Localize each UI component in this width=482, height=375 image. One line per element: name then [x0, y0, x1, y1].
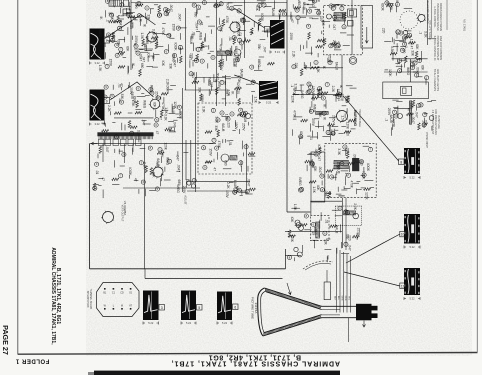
- svg-text:IMEG: IMEG: [198, 32, 202, 41]
- svg-text:220: 220: [359, 160, 363, 166]
- svg-text:33K: 33K: [169, 63, 173, 70]
- svg-text:.047: .047: [415, 111, 419, 117]
- svg-text:.0047: .0047: [139, 53, 143, 61]
- svg-text:33K: 33K: [255, 5, 259, 12]
- svg-text:9: 9: [106, 99, 108, 103]
- svg-text:470K: 470K: [350, 180, 354, 188]
- svg-text:33K: 33K: [214, 125, 218, 132]
- svg-text:1.5K: 1.5K: [293, 204, 297, 211]
- svg-text:3.3K: 3.3K: [316, 66, 320, 73]
- svg-text:BLU: BLU: [337, 296, 339, 301]
- svg-text:5 22: 5 22: [148, 321, 154, 325]
- svg-text:.0047: .0047: [225, 88, 229, 96]
- svg-text:IOK: IOK: [161, 60, 165, 66]
- svg-text:ADJUST: ADJUST: [183, 195, 186, 205]
- svg-text:IMEG: IMEG: [298, 177, 302, 186]
- svg-text:IOK: IOK: [313, 166, 317, 172]
- svg-text:IMEG: IMEG: [297, 0, 301, 7]
- svg-text:.1: .1: [105, 19, 109, 22]
- svg-text:S-TRIOL CONTROL IN: S-TRIOL CONTROL IN: [433, 36, 436, 61]
- svg-text:10: 10: [401, 233, 405, 237]
- svg-text:1.5K: 1.5K: [140, 33, 144, 40]
- svg-text:IOOK: IOOK: [260, 13, 264, 22]
- svg-text:4.5 MC TRAP ADJUST: 4.5 MC TRAP ADJUST: [431, 110, 434, 135]
- svg-text:220: 220: [402, 48, 406, 54]
- svg-text:3 22: 3 22: [94, 122, 100, 126]
- svg-text:.01: .01: [95, 170, 99, 175]
- svg-text:.047: .047: [105, 146, 109, 152]
- svg-text:.0047: .0047: [411, 116, 415, 124]
- svg-text:.01: .01: [325, 219, 329, 224]
- svg-text:47: 47: [158, 116, 162, 120]
- svg-text:150V: 150V: [208, 148, 212, 156]
- svg-text:B, 17J1, 17K1, 4R2, 8G1: B, 17J1, 17K1, 4R2, 8G1: [208, 353, 301, 360]
- svg-text:.047: .047: [173, 121, 177, 127]
- svg-text:220: 220: [348, 235, 352, 241]
- svg-text:120K: 120K: [346, 122, 350, 130]
- svg-text:IMEG: IMEG: [172, 54, 176, 63]
- svg-text:6AU8: 6AU8: [189, 36, 193, 44]
- svg-text:255V: 255V: [182, 186, 186, 194]
- svg-text:IOOK: IOOK: [362, 171, 366, 180]
- svg-text:120K: 120K: [388, 69, 392, 77]
- svg-text:47: 47: [410, 46, 414, 50]
- svg-text:IMEG: IMEG: [257, 59, 261, 68]
- svg-text:470K: 470K: [110, 12, 114, 20]
- svg-text:6AU8: 6AU8: [237, 28, 241, 36]
- svg-text:33K: 33K: [149, 87, 153, 94]
- svg-text:47: 47: [344, 173, 348, 177]
- svg-text:.01: .01: [191, 73, 195, 78]
- svg-text:47: 47: [155, 131, 159, 135]
- svg-text:.047: .047: [263, 46, 267, 52]
- svg-text:IMEG: IMEG: [311, 0, 315, 7]
- svg-text:220: 220: [403, 38, 407, 44]
- svg-text:.01: .01: [309, 135, 313, 140]
- svg-text:2.2K: 2.2K: [397, 58, 401, 65]
- svg-text:VERT OUTPUT: VERT OUTPUT: [120, 205, 123, 222]
- svg-text:IOOK: IOOK: [380, 3, 384, 12]
- svg-text:33K: 33K: [116, 40, 120, 47]
- svg-text:3.3K: 3.3K: [152, 29, 156, 36]
- svg-text:3.3K: 3.3K: [163, 114, 167, 121]
- svg-text:IOK: IOK: [226, 3, 230, 9]
- svg-text:470K: 470K: [161, 27, 165, 35]
- svg-text:255V: 255V: [311, 118, 315, 126]
- svg-text:470K: 470K: [219, 24, 223, 32]
- svg-text:.0047: .0047: [324, 190, 328, 198]
- svg-text:5 22: 5 22: [409, 297, 415, 301]
- svg-text:U-TROL CONTROL: U-TROL CONTROL: [433, 6, 436, 28]
- svg-text:.01: .01: [228, 36, 232, 41]
- svg-text:IOK: IOK: [415, 44, 419, 50]
- svg-text:33K: 33K: [120, 93, 124, 100]
- svg-text:6AU8: 6AU8: [233, 180, 237, 188]
- svg-text:IMEG: IMEG: [176, 185, 180, 194]
- svg-text:150V: 150V: [234, 122, 238, 130]
- svg-text:IMEG: IMEG: [312, 104, 316, 113]
- svg-text:FOR MINIMUM SOUND: FOR MINIMUM SOUND: [434, 109, 437, 135]
- svg-text:6AU8: 6AU8: [171, 106, 175, 114]
- svg-text:47: 47: [212, 167, 216, 171]
- svg-text:470K: 470K: [161, 102, 165, 110]
- svg-text:12: 12: [401, 284, 405, 288]
- svg-text:255V: 255V: [421, 120, 425, 128]
- svg-text:255V: 255V: [235, 21, 239, 29]
- svg-text:M: M: [121, 305, 123, 308]
- svg-text:TO ALL FILAMENTS: TO ALL FILAMENTS: [433, 69, 436, 91]
- svg-text:.0047: .0047: [195, 22, 199, 30]
- svg-text:47: 47: [133, 178, 137, 182]
- svg-text:33K: 33K: [324, 239, 328, 246]
- svg-text:IOK: IOK: [125, 46, 129, 52]
- svg-text:8: 8: [400, 160, 402, 164]
- svg-text:IMEG: IMEG: [300, 90, 304, 99]
- svg-text:220: 220: [126, 12, 130, 18]
- svg-text:1.5K: 1.5K: [98, 65, 102, 72]
- svg-text:3.3K: 3.3K: [215, 116, 219, 123]
- svg-text:PHONO INPUT: PHONO INPUT: [425, 132, 427, 149]
- svg-text:33K: 33K: [146, 14, 150, 21]
- svg-text:1.5K: 1.5K: [341, 115, 345, 122]
- svg-text:33K: 33K: [257, 44, 261, 51]
- svg-text:.01: .01: [153, 37, 157, 42]
- svg-text:6AU8: 6AU8: [302, 2, 306, 10]
- svg-text:150V: 150V: [108, 59, 112, 67]
- svg-text:470K: 470K: [292, 110, 296, 118]
- svg-text:3.3K: 3.3K: [201, 106, 205, 113]
- svg-text:.0047: .0047: [112, 0, 116, 8]
- svg-text:.0047: .0047: [247, 178, 251, 186]
- svg-text:IOOK: IOOK: [391, 119, 395, 128]
- svg-text:.0047: .0047: [166, 85, 170, 93]
- svg-text:.0047: .0047: [415, 66, 419, 74]
- svg-text:IMEG: IMEG: [208, 77, 212, 86]
- svg-text:.047: .047: [155, 161, 159, 167]
- svg-text:MINIATURIZED CHASSIS: MINIATURIZED CHASSIS: [439, 3, 442, 31]
- svg-text:680: 680: [140, 63, 144, 69]
- svg-text:.1: .1: [384, 118, 388, 121]
- svg-text:470K: 470K: [292, 88, 296, 96]
- svg-text:255V: 255V: [130, 92, 134, 100]
- svg-text:255V: 255V: [356, 228, 360, 236]
- svg-text:MAX CCW ROTATION: MAX CCW ROTATION: [439, 36, 442, 60]
- svg-text:IOOK: IOOK: [299, 131, 303, 140]
- svg-text:220: 220: [189, 53, 193, 59]
- svg-text:33K: 33K: [318, 112, 322, 119]
- svg-text:470K: 470K: [225, 16, 229, 24]
- svg-text:.0047: .0047: [353, 154, 357, 162]
- svg-text:.0047: .0047: [318, 166, 322, 174]
- svg-text:.0047: .0047: [178, 13, 182, 21]
- svg-text:BLK: BLK: [333, 296, 335, 301]
- svg-text:47: 47: [311, 232, 315, 236]
- svg-text:5 13: 5 13: [275, 50, 281, 54]
- svg-text:255V: 255V: [328, 55, 332, 63]
- svg-text:IOOK: IOOK: [128, 167, 132, 176]
- svg-text:IMEG: IMEG: [142, 100, 146, 109]
- svg-text:B, 17J1, 17K1, 4R2, 8G1: B, 17J1, 17K1, 4R2, 8G1: [55, 268, 61, 325]
- svg-text:6AU8: 6AU8: [234, 46, 238, 54]
- svg-text:21FP4A: 21FP4A: [254, 303, 258, 314]
- svg-text:120K: 120K: [164, 142, 168, 150]
- svg-text:.01: .01: [260, 0, 264, 5]
- svg-text:2.2K: 2.2K: [331, 86, 335, 93]
- svg-text:TERMINAL BOARD: TERMINAL BOARD: [89, 289, 92, 310]
- svg-text:120K: 120K: [291, 95, 295, 103]
- svg-text:220: 220: [381, 28, 385, 34]
- svg-text:47: 47: [120, 83, 124, 87]
- svg-text:6AU8: 6AU8: [129, 21, 133, 29]
- svg-text:IOOK: IOOK: [174, 43, 178, 52]
- svg-text:3: 3: [161, 306, 163, 310]
- svg-text:.0047: .0047: [314, 149, 318, 157]
- svg-text:.047: .047: [235, 56, 239, 62]
- svg-text:220: 220: [294, 63, 298, 69]
- svg-text:33K: 33K: [197, 87, 201, 94]
- svg-text:PAGE 27: PAGE 27: [1, 325, 10, 355]
- svg-text:47: 47: [303, 65, 307, 69]
- svg-text:6AU8: 6AU8: [334, 62, 338, 70]
- svg-text:680: 680: [321, 20, 325, 26]
- svg-text:470K: 470K: [218, 44, 222, 52]
- svg-text:IOK: IOK: [290, 217, 294, 223]
- svg-text:HIGH VOLTAGE: HIGH VOLTAGE: [358, 109, 361, 127]
- svg-text:680: 680: [177, 180, 181, 186]
- svg-text:47: 47: [101, 177, 105, 181]
- svg-text:.047: .047: [142, 119, 146, 125]
- svg-text:3.3K: 3.3K: [424, 31, 428, 38]
- svg-text:6AU8: 6AU8: [145, 36, 149, 44]
- svg-text:3.3K: 3.3K: [337, 148, 341, 155]
- svg-text:IMEG: IMEG: [98, 29, 102, 38]
- svg-text:NO. 17A81: NO. 17A81: [462, 19, 465, 31]
- svg-text:6AU8: 6AU8: [271, 8, 275, 16]
- svg-text:255V: 255V: [154, 91, 158, 99]
- svg-text:470K: 470K: [217, 141, 221, 149]
- svg-text:2.2K: 2.2K: [353, 203, 357, 210]
- svg-text:680: 680: [223, 160, 227, 166]
- svg-text:255V: 255V: [134, 35, 138, 43]
- svg-text:.1: .1: [404, 45, 408, 48]
- svg-text:.1: .1: [418, 31, 422, 34]
- svg-text:IMEG: IMEG: [406, 67, 410, 76]
- svg-text:WARNING: WARNING: [353, 110, 357, 127]
- svg-text:255V: 255V: [331, 115, 335, 123]
- svg-text:PICTURE TUBE: PICTURE TUBE: [250, 297, 254, 319]
- svg-text:IOK: IOK: [153, 102, 157, 108]
- svg-text:.047: .047: [175, 155, 179, 161]
- svg-text:1.5K: 1.5K: [166, 10, 170, 17]
- svg-text:255V: 255V: [289, 33, 293, 41]
- svg-text:255V: 255V: [242, 123, 246, 131]
- svg-text:680: 680: [193, 12, 197, 18]
- svg-text:5: 5: [198, 306, 200, 310]
- svg-text:.0047: .0047: [177, 164, 181, 172]
- svg-text:IOOK: IOOK: [179, 111, 183, 120]
- svg-text:5 22: 5 22: [409, 245, 415, 249]
- svg-text:33K: 33K: [411, 50, 415, 57]
- svg-text:GRN: GRN: [344, 296, 346, 301]
- svg-text:.01: .01: [199, 21, 203, 26]
- svg-text:IOOK: IOOK: [366, 163, 370, 172]
- svg-text:.047: .047: [332, 24, 336, 30]
- svg-text:2.2K: 2.2K: [143, 162, 147, 169]
- svg-text:.1: .1: [290, 84, 294, 87]
- svg-text:5 25: 5 25: [266, 101, 272, 105]
- svg-text:.01: .01: [252, 79, 256, 84]
- svg-text:5 22: 5 22: [222, 321, 228, 325]
- svg-text:INTERCARRIER SOUND: INTERCARRIER SOUND: [436, 3, 439, 31]
- svg-text:1.5K: 1.5K: [253, 96, 257, 103]
- svg-text:1.5K: 1.5K: [312, 186, 316, 193]
- svg-text:6AU8: 6AU8: [240, 69, 244, 77]
- svg-text:POSITION SHOWN AT: POSITION SHOWN AT: [436, 36, 439, 61]
- svg-text:150V: 150V: [225, 190, 229, 198]
- svg-text:6AU8: 6AU8: [243, 114, 247, 122]
- svg-text:47: 47: [407, 108, 411, 112]
- svg-text:.047: .047: [348, 244, 352, 250]
- svg-text:5 22: 5 22: [186, 321, 192, 325]
- svg-text:2.2K: 2.2K: [226, 182, 230, 189]
- svg-text:CD: CD: [120, 292, 124, 295]
- svg-text:IOK: IOK: [421, 65, 425, 71]
- svg-text:IMEG: IMEG: [166, 157, 170, 166]
- svg-text:120K: 120K: [365, 192, 369, 200]
- svg-text:AND PILOT LIGHTS: AND PILOT LIGHTS: [436, 69, 439, 91]
- svg-text:5 22: 5 22: [409, 176, 415, 180]
- svg-text:6AU8: 6AU8: [221, 123, 225, 131]
- svg-text:150V: 150V: [171, 24, 175, 32]
- svg-text:2.2K: 2.2K: [107, 105, 111, 112]
- svg-text:GRN: GRN: [340, 296, 342, 301]
- svg-text:IN PICTURE: IN PICTURE: [437, 115, 440, 129]
- svg-text:6: 6: [234, 305, 236, 309]
- svg-text:.01: .01: [228, 141, 232, 146]
- svg-text:FOLDER 1: FOLDER 1: [15, 358, 49, 364]
- svg-text:INTERSTATION: INTERSTATION: [86, 291, 89, 308]
- svg-text:3.3K: 3.3K: [137, 130, 141, 137]
- svg-text:IOK: IOK: [147, 52, 151, 58]
- svg-text:1.5K: 1.5K: [224, 114, 228, 121]
- svg-text:2.2K: 2.2K: [291, 51, 295, 58]
- svg-text:220: 220: [226, 122, 230, 128]
